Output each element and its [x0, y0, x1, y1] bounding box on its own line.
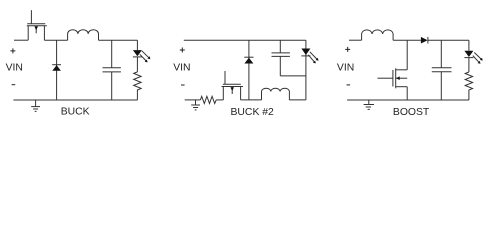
node VIN+ terminal stub	[14, 39, 28, 41]
inductor L2	[262, 88, 290, 100]
ground	[191, 100, 200, 110]
svg-text:BUCK #2: BUCK #2	[231, 107, 275, 118]
minus label	[12, 84, 16, 86]
LED light arrow	[473, 56, 481, 64]
plus label	[10, 48, 15, 53]
resistor R2 (sense)	[200, 96, 216, 103]
wire inductor to output	[99, 39, 138, 41]
diode D5 (boost rectifier)	[421, 37, 428, 44]
ground	[364, 100, 374, 109]
svg-text:VIN: VIN	[173, 62, 190, 73]
bottom wire switch node	[241, 99, 262, 101]
LED light arrow	[142, 51, 151, 59]
capacitor C1	[103, 40, 121, 100]
inductor L3	[362, 30, 394, 40]
wire cap bottom bus	[280, 75, 306, 77]
svg-text:VIN: VIN	[337, 62, 354, 73]
LED light arrow	[308, 55, 316, 64]
LED light arrow	[140, 54, 148, 62]
svg-text:BOOST: BOOST	[393, 107, 430, 118]
LED light arrow	[474, 53, 482, 61]
diode D3 (freewheeling)	[244, 40, 253, 100]
transistor Q3 (boost NMOS)	[378, 40, 408, 100]
wire inductor to diode	[393, 39, 421, 41]
LED D4	[301, 40, 310, 100]
wire resistor to MOSFET	[216, 99, 223, 101]
minus label	[347, 84, 351, 86]
LED light arrow	[310, 52, 319, 61]
diode D1 (freewheeling)	[52, 40, 61, 100]
plus label	[180, 48, 185, 53]
svg-text:BUCK: BUCK	[61, 107, 90, 118]
transistor Q1 (buck high-side MOSFET)	[27, 10, 47, 40]
bottom wire (ground rail)	[13, 99, 137, 101]
LED D6	[464, 40, 473, 72]
wire diode to output	[428, 39, 469, 41]
ground	[31, 100, 40, 111]
node VIN+ top rail	[184, 39, 306, 41]
inductor L1	[68, 30, 99, 41]
capacitor C2	[272, 40, 290, 76]
capacitor C3	[432, 40, 452, 100]
plus label	[345, 47, 350, 52]
wire inductor to LED branch	[289, 99, 306, 101]
bottom wire (ground rail)	[347, 99, 469, 101]
LED D2	[133, 40, 142, 72]
wire switch node to inductor	[44, 39, 67, 41]
resistor R3	[465, 72, 472, 100]
svg-text:VIN: VIN	[6, 62, 23, 73]
node VIN+ terminal stub	[349, 39, 362, 41]
minus label	[181, 84, 185, 86]
resistor R1	[134, 72, 141, 100]
transistor Q2 (low-side MOSFET)	[222, 71, 244, 100]
bottom wire from VIN- to resistor	[185, 99, 201, 101]
